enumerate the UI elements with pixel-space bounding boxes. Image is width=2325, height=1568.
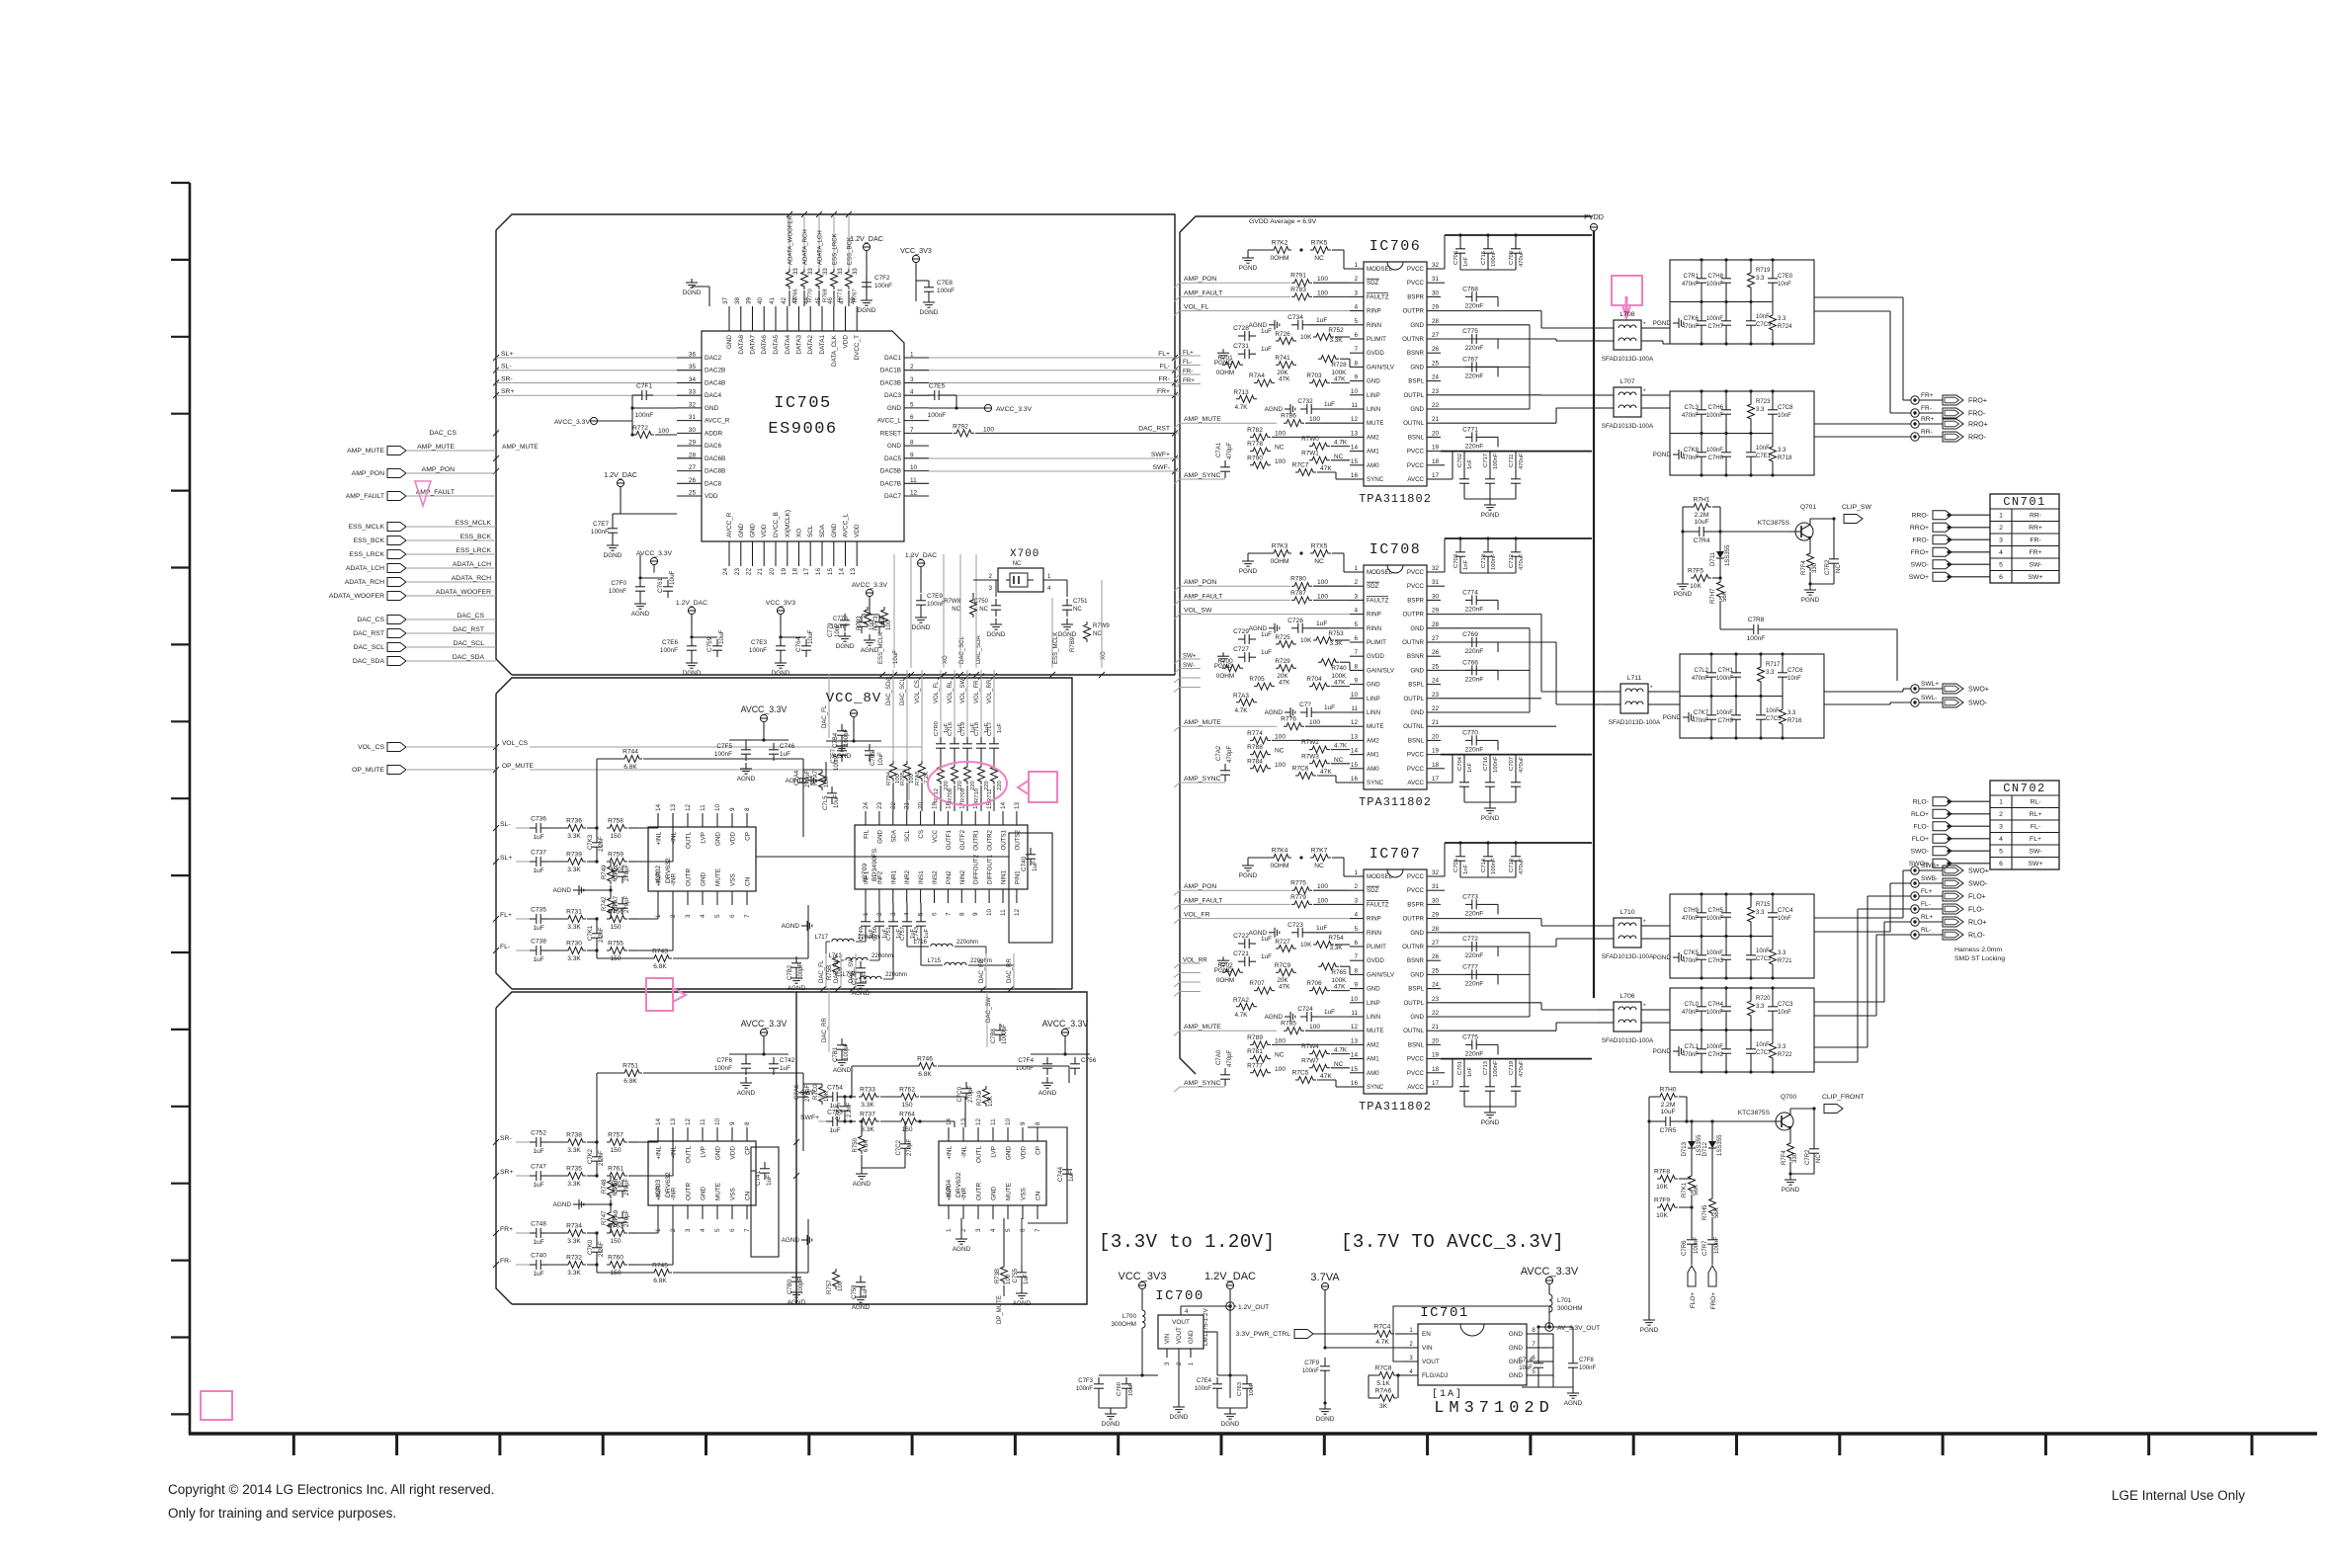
svg-text:C7E6: C7E6 [662,639,678,646]
svg-text:1uF: 1uF [1261,346,1272,353]
svg-text:GAIN/SLV: GAIN/SLV [1367,364,1395,371]
svg-text:L708: L708 [1619,311,1634,318]
svg-text:INF1: INF1 [864,870,871,884]
svg-text:RR-: RR- [1921,429,1933,436]
svg-text:NC: NC [1275,445,1285,452]
svg-text:C7L7: C7L7 [987,722,993,736]
svg-text:220nF: 220nF [1465,676,1484,683]
svg-text:BSNR: BSNR [1407,350,1425,357]
svg-text:FRO+: FRO+ [1968,397,1987,404]
svg-text:3.3K: 3.3K [1329,337,1343,344]
svg-text:1uF: 1uF [1261,953,1272,960]
svg-text:150: 150 [610,1238,621,1245]
svg-text:C771: C771 [1462,426,1478,433]
svg-text:C7H0: C7H0 [1708,455,1724,461]
svg-text:NC: NC [979,607,988,613]
svg-text:DAC6: DAC6 [705,443,721,450]
svg-text:PGND: PGND [1239,265,1258,272]
svg-text:15: 15 [827,568,834,576]
svg-text:1: 1 [1354,869,1358,876]
svg-text:NIN2: NIN2 [959,869,966,884]
svg-text:100pF: 100pF [844,1043,850,1060]
svg-text:3: 3 [1354,289,1358,296]
svg-text:R723: R723 [1756,399,1771,405]
svg-text:22: 22 [1432,705,1440,712]
svg-text:19: 19 [1432,445,1440,452]
svg-text:VOL_SW: VOL_SW [1184,608,1212,615]
svg-text:CLIP_SW: CLIP_SW [1842,504,1871,511]
svg-text:DGND: DGND [1221,1421,1240,1428]
svg-text:4: 4 [1354,304,1358,311]
svg-text:GND: GND [726,335,733,350]
svg-text:220: 220 [984,781,990,790]
svg-text:100: 100 [983,426,994,433]
svg-text:VOL_FR: VOL_FR [974,680,980,703]
svg-text:AMP_PON: AMP_PON [1184,276,1216,283]
svg-text:1uF: 1uF [533,834,543,841]
svg-text:SR+: SR+ [501,388,514,395]
svg-text:VCC_3V3: VCC_3V3 [766,600,796,607]
svg-text:12: 12 [975,1117,982,1125]
svg-text:100nF: 100nF [1302,1368,1319,1374]
svg-text:470uF: 470uF [1519,756,1525,773]
svg-text:DAC1: DAC1 [884,355,901,362]
svg-text:0OHM: 0OHM [1270,558,1288,565]
svg-text:100: 100 [1317,276,1328,283]
svg-text:PGND: PGND [1481,815,1500,822]
svg-text:25: 25 [1432,360,1440,367]
svg-text:ADDR: ADDR [705,430,722,437]
svg-text:SWO-: SWO- [1910,562,1929,569]
svg-text:C768: C768 [1462,286,1478,292]
svg-text:470uF: 470uF [1519,858,1525,874]
svg-text:8: 8 [958,912,965,916]
svg-text:13: 13 [670,803,677,811]
svg-text:11: 11 [1351,1010,1358,1017]
svg-text:10: 10 [1351,996,1359,1003]
svg-text:AM1: AM1 [1367,449,1379,455]
svg-text:FR+: FR+ [1921,392,1934,399]
svg-text:Harness 2.0mm: Harness 2.0mm [1954,947,2002,953]
svg-text:PGND: PGND [1674,591,1693,598]
svg-text:9: 9 [729,1121,736,1125]
svg-text:100nF: 100nF [660,647,678,654]
svg-text:NIN1: NIN1 [1001,869,1008,884]
svg-text:9: 9 [972,912,979,916]
svg-text:LINP: LINP [1367,696,1380,702]
svg-text:C7C9: C7C9 [1756,322,1772,328]
svg-text:LINP: LINP [1367,392,1380,399]
svg-text:24: 24 [1432,374,1440,381]
svg-text:47K: 47K [1279,376,1290,383]
svg-text:C7K0: C7K0 [588,1239,594,1255]
svg-text:C7A0: C7A0 [1216,1049,1222,1065]
svg-text:3: 3 [1999,824,2003,831]
svg-text:AM2: AM2 [1367,1041,1379,1048]
svg-text:R742: R742 [602,896,608,911]
svg-text:R7H1: R7H1 [1694,497,1710,504]
svg-text:NC: NC [1314,863,1324,869]
svg-text:LINN: LINN [1367,709,1380,716]
svg-text:CP: CP [1036,1146,1042,1155]
svg-text:26: 26 [1432,649,1440,656]
svg-text:C7C3: C7C3 [1778,1002,1793,1008]
svg-text:R709: R709 [960,788,966,802]
svg-text:14: 14 [1351,445,1359,452]
svg-text:C7E1: C7E1 [1756,454,1772,459]
svg-text:4: 4 [910,389,914,396]
svg-text:DATA_CLK: DATA_CLK [831,334,838,367]
svg-text:300OHM: 300OHM [1557,1305,1583,1312]
svg-text:AGND: AGND [788,1299,806,1306]
svg-text:33: 33 [808,268,814,275]
svg-text:3: 3 [910,376,914,383]
svg-text:C7F9: C7F9 [1304,1361,1319,1366]
svg-text:C759: C759 [706,636,713,652]
svg-text:-INL: -INL [961,1146,968,1158]
svg-text:100: 100 [658,428,669,435]
svg-text:27: 27 [1432,635,1440,642]
svg-text:37: 37 [722,296,729,304]
svg-text:13: 13 [1014,801,1021,809]
svg-text:AVCC_3.3V: AVCC_3.3V [741,704,788,714]
svg-text:220nF: 220nF [1465,1050,1484,1057]
svg-text:FRO-: FRO- [1968,410,1986,417]
svg-text:8: 8 [1354,360,1358,367]
svg-text:RL+: RL+ [1921,914,1933,921]
svg-text:DGND: DGND [920,309,939,316]
svg-text:LVP: LVP [991,1146,998,1158]
svg-text:270pF: 270pF [624,1210,630,1227]
svg-text:100nF: 100nF [1491,250,1497,267]
svg-text:VDD: VDD [1021,1146,1028,1160]
svg-text:CP: CP [745,832,752,841]
svg-text:3.7VA: 3.7VA [1310,1272,1340,1283]
svg-text:100pF: 100pF [844,729,850,746]
svg-text:1uF: 1uF [533,925,543,932]
svg-text:3.3: 3.3 [1756,407,1765,413]
svg-text:4: 4 [1999,549,2003,556]
svg-text:PGND: PGND [1239,568,1258,575]
svg-text:23: 23 [1432,388,1440,395]
svg-text:OUTF2: OUTF2 [959,829,966,850]
svg-text:11: 11 [1000,909,1007,916]
svg-text:DATA1: DATA1 [819,335,826,355]
svg-text:11: 11 [1351,402,1358,409]
svg-text:C702: C702 [1457,454,1463,467]
svg-text:DGND: DGND [1170,1414,1189,1421]
svg-text:RINP: RINP [1367,308,1381,315]
svg-text:10uF: 10uF [1519,1365,1533,1371]
svg-text:C7R1: C7R1 [1684,274,1700,280]
svg-text:23: 23 [1432,996,1440,1003]
svg-text:R768: R768 [823,289,829,302]
svg-text:RINN: RINN [1367,930,1381,937]
svg-text:R767: R767 [853,289,859,302]
svg-text:32: 32 [1432,565,1440,572]
svg-text:100nF: 100nF [874,283,892,289]
svg-text:VCC_8V: VCC_8V [826,691,881,706]
svg-text:L701: L701 [1557,1297,1572,1304]
svg-text:4.7K: 4.7K [1375,1339,1389,1346]
svg-text:DGND: DGND [1316,1416,1335,1423]
svg-text:23: 23 [876,801,883,809]
svg-text:AM2: AM2 [1367,737,1379,744]
svg-text:10nF: 10nF [1778,413,1791,419]
svg-text:C757: C757 [900,927,906,941]
svg-text:13: 13 [1351,733,1359,740]
svg-text:R7K7: R7K7 [1311,848,1328,855]
svg-text:NC: NC [1334,757,1344,764]
svg-text:AGND: AGND [788,985,806,992]
svg-text:18: 18 [792,568,799,576]
svg-text:ESS_BCK: ESS_BCK [460,534,492,540]
svg-text:C7E5: C7E5 [929,383,946,390]
svg-text:R7A5: R7A5 [915,771,921,785]
svg-text:1uF: 1uF [863,1286,869,1297]
svg-text:AMP_MUTE: AMP_MUTE [417,444,455,451]
svg-text:20: 20 [1432,733,1440,740]
svg-text:24: 24 [722,568,729,576]
svg-text:100nF: 100nF [1493,756,1499,773]
svg-text:0OHM: 0OHM [1216,977,1234,984]
svg-text:R705: R705 [1249,676,1265,683]
svg-text:8: 8 [910,440,914,447]
svg-text:100nF: 100nF [1579,1365,1596,1371]
svg-text:VDD: VDD [854,524,861,537]
svg-text:L715: L715 [928,958,942,964]
svg-text:OUTPL: OUTPL [1403,392,1424,399]
svg-text:100nF: 100nF [927,601,945,608]
svg-text:PVCC: PVCC [1407,583,1425,590]
svg-text:10: 10 [986,908,993,916]
svg-text:DATA8: DATA8 [738,335,745,355]
svg-text:C775: C775 [1462,328,1478,335]
svg-text:4: 4 [990,1228,997,1232]
svg-text:DAC2: DAC2 [705,355,721,362]
svg-text:220nF: 220nF [1465,980,1484,987]
svg-text:AMP_SYNC: AMP_SYNC [1184,472,1221,479]
svg-text:C7B8: C7B8 [991,1028,997,1043]
svg-text:PVCC: PVCC [1407,1056,1425,1063]
svg-text:8: 8 [744,1121,751,1125]
svg-text:DIFFOUT1: DIFFOUT1 [987,854,994,884]
svg-text:220nF: 220nF [1465,606,1484,613]
svg-text:220nF: 220nF [1465,952,1484,959]
svg-text:470uF: 470uF [1519,1060,1525,1077]
svg-text:VOL_FR: VOL_FR [1184,912,1210,919]
svg-text:DGND: DGND [1102,1421,1121,1428]
svg-text:BSNL: BSNL [1408,1041,1425,1048]
svg-text:AVCC: AVCC [1407,476,1424,483]
svg-text:9: 9 [910,452,914,458]
svg-text:21: 21 [1432,1024,1440,1031]
svg-text:GND: GND [1410,364,1424,371]
svg-text:C7C4: C7C4 [1778,908,1793,914]
svg-text:RESET: RESET [880,430,901,437]
svg-text:10uF: 10uF [1249,1382,1255,1396]
svg-text:RL-: RL- [2031,799,2041,806]
svg-text:C7L8: C7L8 [974,722,980,736]
svg-text:2.2nF: 2.2nF [599,1150,605,1166]
svg-text:OUTL: OUTL [686,1146,693,1163]
svg-text:R774: R774 [1247,730,1263,737]
svg-text:KTC3875S: KTC3875S [1738,1110,1771,1116]
svg-text:100nF: 100nF [1016,1065,1034,1072]
svg-text:FL-: FL- [1183,359,1192,366]
svg-text:VOL_SW: VOL_SW [960,679,966,703]
svg-text:5: 5 [1354,621,1358,628]
svg-text:150: 150 [610,1147,621,1154]
svg-text:SWO+: SWO+ [1909,574,1929,581]
svg-text:SW-: SW- [1183,662,1195,669]
svg-text:C737: C737 [531,850,546,857]
svg-text:ESS_MCLK: ESS_MCLK [349,524,385,531]
svg-text:ESS_LRCK: ESS_LRCK [349,551,384,558]
svg-text:DATA2: DATA2 [807,335,814,355]
svg-text:NC: NC [1334,454,1344,460]
svg-text:DAC_FL: DAC_FL [819,959,825,983]
svg-text:AGND: AGND [852,990,871,997]
svg-text:FRO+: FRO+ [1710,1292,1717,1309]
svg-text:47K: 47K [1279,680,1290,687]
svg-text:R720: R720 [1756,996,1771,1002]
svg-text:28: 28 [689,452,697,458]
svg-text:CS: CS [918,830,925,839]
svg-text:ESS_LRCK: ESS_LRCK [833,233,839,265]
svg-text:R702: R702 [1217,962,1233,969]
svg-text:23: 23 [1432,692,1440,699]
svg-text:R701: R701 [1217,355,1233,362]
svg-text:GND: GND [1410,667,1424,674]
svg-text:220nF: 220nF [1465,345,1484,352]
svg-text:C728: C728 [1233,325,1249,332]
svg-text:R7K4: R7K4 [1272,848,1288,855]
svg-text:R7K1: R7K1 [1682,1182,1688,1197]
svg-text:20: 20 [918,801,925,809]
svg-text:C718: C718 [1481,554,1487,568]
svg-text:C734: C734 [1287,314,1303,321]
svg-text:NC: NC [1836,564,1842,573]
svg-text:FAULTZ: FAULTZ [1367,901,1389,908]
svg-text:TPA311802: TPA311802 [1359,1100,1432,1114]
svg-text:DAC_SCL: DAC_SCL [454,640,485,647]
svg-text:ADATA_LCH: ADATA_LCH [453,561,491,568]
svg-text:3: 3 [685,1228,692,1232]
svg-text:3.3: 3.3 [1756,910,1765,916]
svg-text:R752: R752 [1328,327,1344,334]
svg-text:VIN: VIN [1422,1345,1433,1352]
svg-text:ADATA_LCH: ADATA_LCH [346,565,384,572]
svg-text:R707: R707 [1249,980,1265,987]
svg-text:100: 100 [1317,897,1328,904]
svg-text:C7C2: C7C2 [896,1139,902,1155]
svg-text:C7K5: C7K5 [1684,950,1700,956]
svg-text:270pF: 270pF [968,1086,974,1103]
svg-text:C7E9: C7E9 [927,593,943,600]
svg-text:3.3: 3.3 [1756,1004,1765,1010]
svg-text:C721: C721 [1233,950,1249,957]
svg-text:4: 4 [700,1228,706,1232]
svg-text:BSNL: BSNL [1408,434,1425,441]
svg-text:32: 32 [1432,262,1440,269]
svg-text:DGND: DGND [772,670,790,677]
svg-text:C7L9: C7L9 [960,722,966,736]
svg-text:DAC_SDA: DAC_SDA [353,658,385,665]
svg-text:OP_MUTE: OP_MUTE [502,763,534,770]
svg-text:4: 4 [1999,836,2003,843]
svg-text:OUTR2: OUTR2 [987,829,994,850]
svg-text:AGND: AGND [737,1090,756,1097]
svg-text:C7F5: C7F5 [716,743,732,750]
svg-text:6.8K: 6.8K [653,963,667,970]
svg-text:12: 12 [1351,719,1359,726]
svg-text:R7C4: R7C4 [1374,1324,1391,1331]
svg-text:270pF: 270pF [805,771,811,787]
svg-text:3.3: 3.3 [1766,670,1775,676]
svg-text:LINP: LINP [1367,1000,1380,1007]
svg-text:-INL: -INL [671,832,678,844]
svg-text:C7F6: C7F6 [716,1057,732,1064]
svg-text:R704: R704 [1306,676,1322,683]
svg-text:5: 5 [1999,562,2003,569]
svg-text:10uF: 10uF [1660,1109,1675,1115]
svg-text:R785: R785 [1281,1021,1296,1028]
svg-text:VOL_CS: VOL_CS [502,740,529,747]
svg-text:10uF: 10uF [718,629,725,644]
svg-text:R7F4: R7F4 [1782,1150,1787,1165]
svg-text:33: 33 [823,268,829,275]
svg-text:3.3K: 3.3K [567,1147,581,1154]
svg-text:100: 100 [1006,1274,1012,1284]
svg-text:27: 27 [1432,940,1440,947]
svg-text:DAC_CS: DAC_CS [457,613,484,619]
svg-text:17: 17 [1432,776,1440,783]
svg-text:R7C7: R7C7 [1292,462,1309,469]
svg-text:28: 28 [1432,621,1440,628]
svg-text:SDA: SDA [890,829,897,843]
svg-text:17: 17 [1432,1080,1440,1087]
svg-text:OUTR: OUTR [686,868,693,886]
svg-text:C727: C727 [1233,646,1249,653]
svg-text:FAULTZ: FAULTZ [1367,293,1389,300]
svg-text:NC: NC [1073,607,1082,613]
svg-text:R787: R787 [1290,590,1306,597]
svg-text:DAC_SCL: DAC_SCL [354,644,385,651]
svg-text:1: 1 [1999,513,2003,520]
svg-text:DAC_SDA: DAC_SDA [453,654,485,661]
svg-text:C729: C729 [1233,628,1249,635]
svg-text:3: 3 [685,914,692,918]
svg-text:OUTPL: OUTPL [1403,1000,1424,1007]
svg-text:R710: R710 [974,787,980,802]
svg-text:2: 2 [910,364,914,371]
svg-text:C773: C773 [1462,893,1478,900]
svg-text:VSS: VSS [730,873,737,886]
svg-text:220: 220 [997,781,1003,790]
svg-text:FL+: FL+ [2030,836,2041,843]
svg-text:330: 330 [1792,1152,1798,1163]
svg-text:PGND: PGND [1653,1048,1672,1055]
svg-text:AVCC_L: AVCC_L [843,513,850,537]
svg-text:R758: R758 [608,818,623,825]
svg-text:*: * [1643,388,1646,395]
svg-text:23: 23 [734,568,741,576]
svg-text:C7H3: C7H3 [1708,958,1724,964]
svg-text:ADATA_RCH: ADATA_RCH [803,229,809,265]
svg-text:56K: 56K [1714,1207,1720,1218]
svg-text:PGND: PGND [1653,320,1672,327]
